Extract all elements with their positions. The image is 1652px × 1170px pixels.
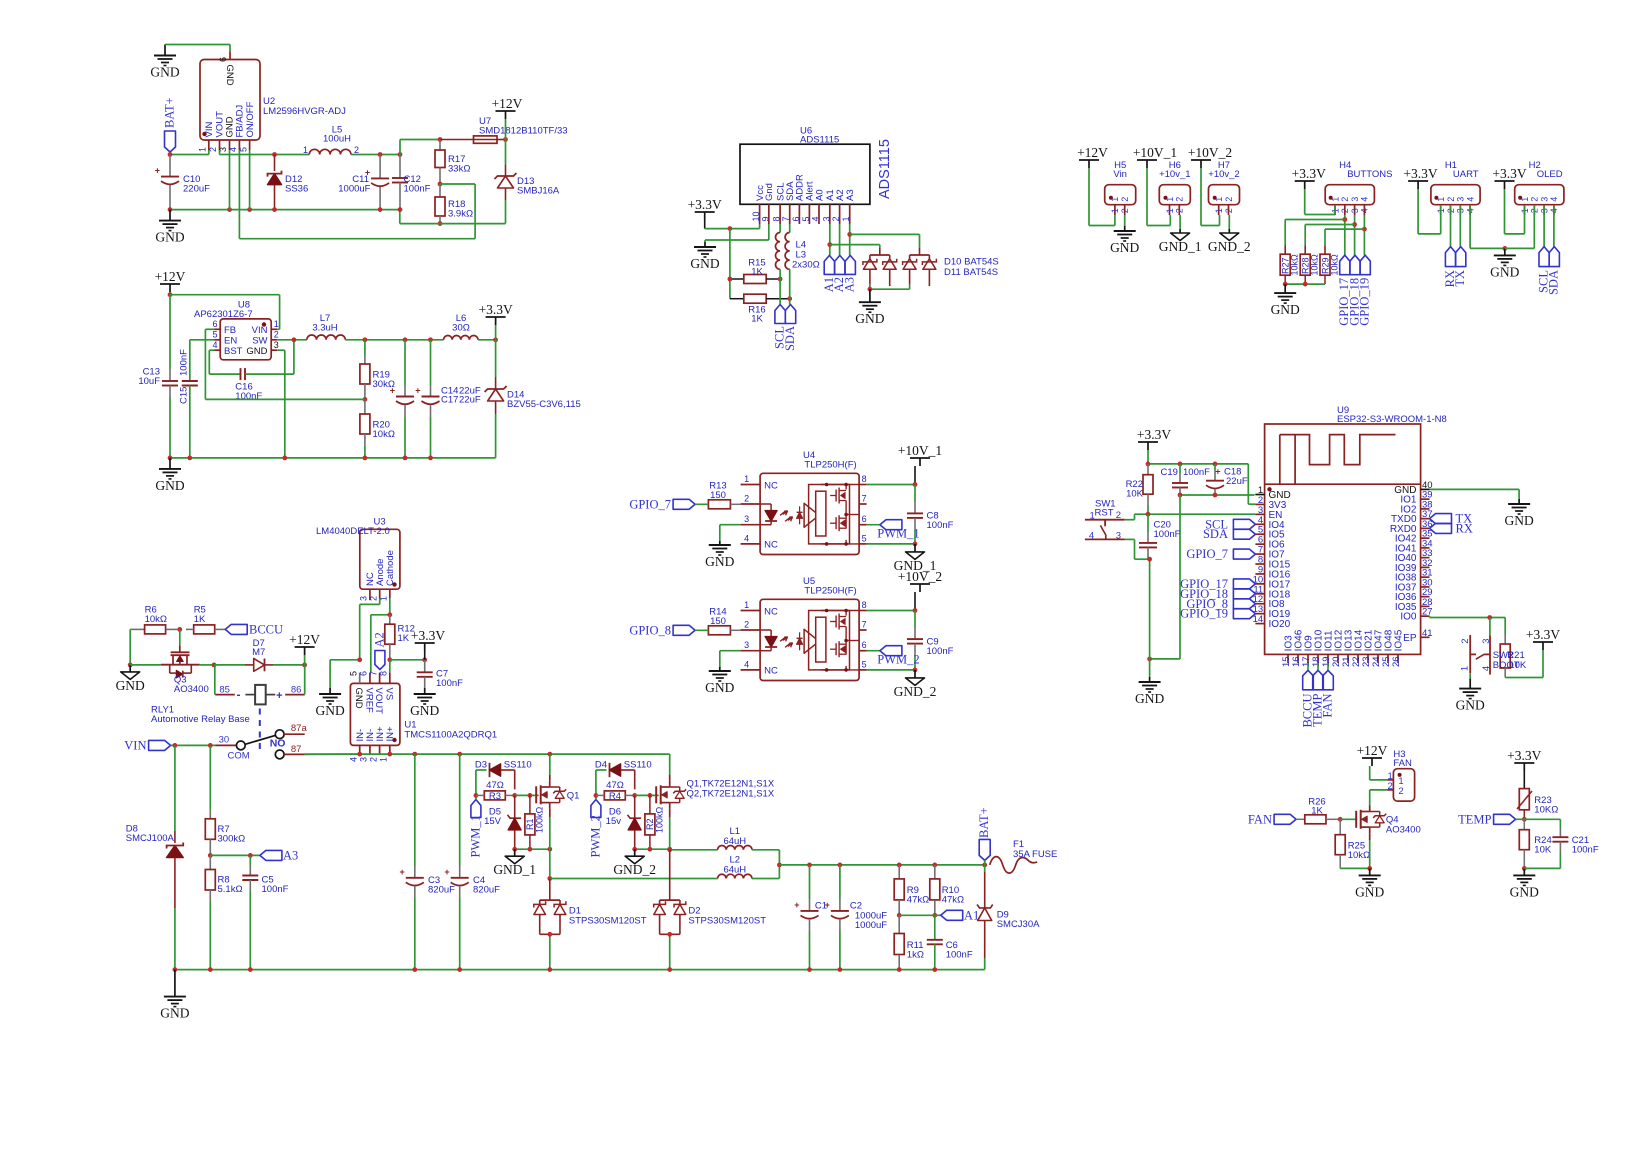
svg-text:D11 BAT54S: D11 BAT54S bbox=[944, 267, 998, 278]
svg-text:+3.3V: +3.3V bbox=[1507, 748, 1541, 763]
U6 pin 4 A0 bbox=[811, 189, 826, 224]
U9 pin 15 IO3 bbox=[1281, 635, 1295, 667]
svg-text:GND_2: GND_2 bbox=[894, 684, 937, 699]
ground GND (U6) bbox=[690, 242, 719, 271]
resistor R25 10k bbox=[1335, 819, 1370, 868]
svg-text:30: 30 bbox=[219, 735, 230, 746]
svg-text:6: 6 bbox=[212, 319, 217, 329]
wire H4 pin4 net bbox=[1363, 215, 1365, 255]
svg-text:100nF: 100nF bbox=[179, 349, 190, 376]
svg-text:1K: 1K bbox=[398, 633, 410, 644]
U6 pin 7 SDA bbox=[781, 181, 796, 224]
svg-text:C17: C17 bbox=[441, 395, 458, 406]
resistor R2 100k bbox=[645, 795, 665, 849]
svg-text:+: + bbox=[444, 867, 449, 877]
svg-text:820uF: 820uF bbox=[473, 885, 500, 896]
junction R18 bottom bbox=[438, 221, 443, 226]
IC U8 AP62301Z6-7 bbox=[194, 300, 271, 360]
capacitor C13 10uF bbox=[138, 295, 178, 458]
junction rail C5 bbox=[248, 967, 253, 972]
junction R15 left bbox=[728, 277, 733, 282]
flag PWM_1 (U4 out) bbox=[867, 520, 920, 541]
resistor R3 47 bbox=[476, 780, 515, 802]
wire SW2 pin3 drop bbox=[1489, 618, 1491, 636]
U9 pin 26 IO45 bbox=[1391, 629, 1405, 667]
svg-text:+3.3V: +3.3V bbox=[688, 197, 722, 212]
wire 12V to H3 pin1 bbox=[1370, 779, 1388, 781]
junction R2 top bbox=[648, 793, 653, 798]
svg-text:3: 3 bbox=[359, 596, 369, 601]
wire GND to U2 pin6 bbox=[165, 45, 230, 52]
svg-text:1K: 1K bbox=[751, 314, 763, 325]
flag SCL (U6) bbox=[773, 305, 787, 349]
capacitor C2 1000uF bbox=[825, 865, 888, 970]
svg-text:4: 4 bbox=[1481, 666, 1492, 671]
fuse F1 35A bbox=[990, 839, 1058, 873]
svg-text:R1: R1 bbox=[525, 818, 535, 830]
U1 pin 2 IN+ bbox=[368, 726, 386, 762]
flag PWM_2 (gate) bbox=[588, 800, 602, 858]
junction gnd pin5 bbox=[247, 207, 252, 212]
flag A1 bbox=[941, 909, 980, 923]
resistor R1 100k bbox=[525, 795, 545, 849]
inductor L5 100uH bbox=[303, 125, 380, 156]
svg-text:8: 8 bbox=[862, 474, 867, 484]
U9 pin 3 EN bbox=[1255, 505, 1282, 521]
svg-text:IN+: IN+ bbox=[385, 726, 396, 742]
IC U4 TLP250H(F) bbox=[741, 450, 867, 554]
U9 pin 41 EP bbox=[1403, 628, 1432, 644]
svg-text:RX: RX bbox=[1456, 521, 1473, 535]
svg-text:SS36: SS36 bbox=[285, 184, 308, 195]
svg-text:3: 3 bbox=[274, 340, 279, 350]
power +3.3V (H2) bbox=[1492, 166, 1526, 234]
flag GPIO_19 (U9) bbox=[1180, 607, 1255, 621]
ground GND_1 (H6) bbox=[1159, 229, 1202, 254]
U9 pin 2 3V3 bbox=[1255, 495, 1286, 511]
svg-text:RST: RST bbox=[1095, 508, 1114, 519]
svg-text:2: 2 bbox=[1398, 786, 1403, 797]
header H3 FAN bbox=[1387, 749, 1414, 801]
junction C17 top bbox=[428, 337, 433, 342]
svg-text:7: 7 bbox=[781, 216, 791, 221]
svg-text:3.9kΩ: 3.9kΩ bbox=[448, 209, 473, 220]
svg-text:1: 1 bbox=[1214, 197, 1224, 202]
header H2 OLED bbox=[1515, 160, 1564, 215]
svg-text:100nF: 100nF bbox=[927, 520, 954, 531]
svg-text:Automotive Relay Base: Automotive Relay Base bbox=[151, 714, 250, 725]
diode D8 SMCJ100A bbox=[126, 745, 183, 969]
junction R28 bottom bbox=[1303, 282, 1308, 287]
power +10V_2 bbox=[898, 569, 942, 611]
svg-text:STPS30SM120ST: STPS30SM120ST bbox=[569, 916, 647, 927]
wire cathode to vref bbox=[371, 598, 390, 673]
svg-text:4: 4 bbox=[1360, 208, 1370, 213]
wire H1 pin1 bbox=[1418, 205, 1441, 234]
svg-text:+3.3V: +3.3V bbox=[1292, 166, 1326, 181]
svg-text:2: 2 bbox=[1175, 197, 1185, 202]
svg-text:+: + bbox=[400, 867, 405, 877]
U9 pin 9 IO16 bbox=[1255, 564, 1290, 580]
wire A3 to D11 bbox=[850, 234, 920, 248]
U9 pin 36 RXD0 bbox=[1390, 519, 1433, 535]
svg-text:GND_2: GND_2 bbox=[613, 862, 656, 877]
svg-text:22uF: 22uF bbox=[1226, 476, 1248, 487]
svg-text:64uH: 64uH bbox=[723, 865, 746, 876]
U6 pin 8 SCL bbox=[772, 183, 787, 224]
svg-text:100uH: 100uH bbox=[323, 134, 351, 145]
U6 pin 1 A3 bbox=[841, 189, 856, 224]
svg-text:3: 3 bbox=[1539, 197, 1549, 202]
svg-text:D4: D4 bbox=[595, 760, 607, 771]
relay contact 87 bbox=[275, 744, 301, 759]
svg-text:BAT+: BAT+ bbox=[977, 807, 991, 838]
zener D5 15V bbox=[484, 795, 521, 849]
junction gnd pin3 bbox=[227, 207, 232, 212]
svg-text:A3: A3 bbox=[845, 189, 856, 201]
power +3.3V (R23) bbox=[1507, 748, 1541, 789]
svg-text:3: 3 bbox=[821, 216, 831, 221]
wire anode to U1 gnd bbox=[360, 598, 380, 660]
U6 pin 10 Vcc bbox=[751, 185, 766, 224]
svg-text:10kΩ: 10kΩ bbox=[1329, 254, 1339, 276]
svg-text:2: 2 bbox=[1116, 510, 1121, 521]
svg-text:Q2,TK72E12N1,S1X: Q2,TK72E12N1,S1X bbox=[687, 789, 775, 800]
svg-text:100nF: 100nF bbox=[235, 391, 262, 402]
wire IO0 to boot net bbox=[1430, 616, 1506, 617]
svg-text:BST: BST bbox=[224, 346, 243, 357]
svg-text:NC: NC bbox=[764, 480, 778, 491]
wire VIN to COM bbox=[171, 744, 237, 746]
U9 pin 40 GND bbox=[1394, 480, 1432, 496]
wire gnd to pin9 bbox=[705, 224, 769, 242]
svg-text:1: 1 bbox=[1165, 197, 1175, 202]
power +3.3V (U8 output) bbox=[478, 302, 512, 340]
flag A3 (U6) bbox=[843, 255, 857, 292]
flag SDA (U6) bbox=[783, 305, 797, 352]
resistor R13 150 bbox=[708, 481, 740, 509]
junction rail U8gnd bbox=[282, 456, 287, 461]
header H5 Vin bbox=[1105, 160, 1136, 215]
power +12V (H5) bbox=[1077, 145, 1108, 226]
svg-text:100nF: 100nF bbox=[1183, 467, 1210, 478]
svg-text:SDA: SDA bbox=[1547, 270, 1561, 295]
junction R10 A1 bbox=[932, 913, 937, 918]
flag SCL (H2) bbox=[1537, 205, 1551, 293]
svg-text:1: 1 bbox=[1436, 197, 1446, 202]
resistor R6 10k bbox=[130, 605, 167, 634]
wire gnd2 node bbox=[635, 848, 670, 850]
svg-text:R2: R2 bbox=[645, 818, 655, 830]
flag PWM_1 (gate) bbox=[468, 800, 482, 858]
U9 pin 29 IO36 bbox=[1395, 587, 1433, 603]
flag GPIO_8 (U9) bbox=[1186, 597, 1255, 611]
svg-text:C15: C15 bbox=[179, 387, 190, 404]
svg-text:2: 2 bbox=[274, 330, 279, 340]
svg-text:A0: A0 bbox=[814, 189, 825, 201]
svg-text:PWM_2: PWM_2 bbox=[588, 815, 602, 857]
wire gnd sym to pin5 bbox=[330, 660, 360, 688]
svg-text:2x30Ω: 2x30Ω bbox=[792, 260, 820, 271]
svg-text:IO0: IO0 bbox=[1400, 612, 1417, 623]
resistor R8 5.1k bbox=[205, 855, 242, 969]
svg-text:NC: NC bbox=[764, 666, 778, 677]
svg-text:1K: 1K bbox=[751, 267, 763, 278]
svg-text:33kΩ: 33kΩ bbox=[448, 164, 470, 175]
flag VIN bbox=[124, 739, 170, 753]
junction U7 left bbox=[438, 137, 443, 142]
junction D12 top bbox=[272, 152, 277, 157]
flag GPIO_7 (U4 in) bbox=[629, 498, 708, 512]
wire U5 pin5 gnd2 bbox=[867, 669, 915, 671]
wire pwm2 node bbox=[596, 770, 607, 800]
junction H1 H2 gnd bbox=[1502, 246, 1507, 251]
IC U9 ESP32-S3-WROOM-1-N8 (module outline and antenna) bbox=[1265, 405, 1447, 654]
transistor Q4 AO3400 bbox=[1340, 805, 1421, 835]
U9 pin 17 IO9 bbox=[1301, 635, 1315, 667]
wire U5 pin3 gnd bbox=[720, 651, 741, 667]
junction pwm2 bbox=[594, 793, 599, 798]
wire U8 gnd pin bbox=[277, 350, 285, 458]
wire pin2 to R27 bbox=[1285, 220, 1345, 255]
svg-text:GND_1: GND_1 bbox=[493, 862, 536, 877]
svg-text:GPIO_8: GPIO_8 bbox=[629, 624, 671, 638]
junction H4 pin3 bbox=[1352, 222, 1357, 227]
wire SW1 pin3 to C20 bbox=[1125, 539, 1150, 559]
svg-text:2: 2 bbox=[368, 596, 378, 601]
ground GND (U4 pin3) bbox=[705, 541, 734, 569]
resistor R5 1K bbox=[166, 605, 215, 634]
svg-text:SDA: SDA bbox=[783, 326, 797, 351]
svg-text:3: 3 bbox=[359, 757, 369, 762]
flag GPIO_7 (U9) bbox=[1186, 547, 1255, 561]
flag A3 bbox=[260, 849, 298, 863]
svg-text:1000uF: 1000uF bbox=[855, 920, 887, 931]
junction Q3 source gnd bbox=[128, 663, 133, 668]
wire bat54 gnd bbox=[870, 285, 910, 290]
svg-text:IO20: IO20 bbox=[1269, 619, 1291, 630]
junction rail C6 bbox=[932, 967, 937, 972]
resistor R26 1K bbox=[1296, 797, 1340, 824]
ground GND (U2 pin 6) bbox=[150, 45, 179, 80]
wire Q4 drain bbox=[1369, 804, 1371, 807]
U9 pin 23 IO21 bbox=[1361, 629, 1375, 667]
flag TEMP (input) bbox=[1458, 812, 1524, 826]
wire U5 pin8 to +10V_2 bbox=[867, 610, 915, 612]
junction R1 gnd1 bbox=[528, 847, 533, 852]
svg-text:GND: GND bbox=[1135, 691, 1164, 706]
header H7 +10v_2 bbox=[1208, 160, 1239, 215]
wire output riser to fuse rail bbox=[400, 140, 440, 155]
svg-text:GPIO_19: GPIO_19 bbox=[1180, 607, 1228, 621]
U6 pin 3 A1 bbox=[821, 189, 836, 224]
resistor R14 150 bbox=[708, 607, 740, 635]
flag SDA (H2) bbox=[1547, 205, 1561, 295]
U9 pin 30 IO37 bbox=[1395, 577, 1433, 593]
svg-text:150: 150 bbox=[710, 490, 726, 501]
svg-text:47kΩ: 47kΩ bbox=[942, 895, 964, 906]
resistor R29 10k bbox=[1320, 254, 1339, 284]
svg-text:+12V: +12V bbox=[1357, 743, 1388, 758]
svg-text:TX: TX bbox=[1453, 270, 1467, 287]
resistor R24 10K bbox=[1519, 819, 1552, 868]
capacitor C8 100nF bbox=[907, 485, 954, 544]
svg-text:C19: C19 bbox=[1161, 467, 1178, 478]
U9 pin 35 IO42 bbox=[1395, 529, 1433, 545]
ground GND (U5 pin3) bbox=[705, 667, 734, 695]
junction rail C14 bbox=[403, 456, 408, 461]
U1 pin 3 IN- bbox=[359, 729, 377, 762]
svg-text:100nF: 100nF bbox=[404, 184, 431, 195]
svg-text:100nF: 100nF bbox=[1154, 529, 1181, 540]
ground GND (U8 rail) bbox=[155, 458, 184, 493]
power +12V (U8 input) bbox=[155, 269, 186, 295]
svg-text:SDA: SDA bbox=[1203, 527, 1228, 541]
U9 pin 31 IO38 bbox=[1395, 568, 1433, 584]
svg-text:26: 26 bbox=[1391, 656, 1402, 667]
U8 pin 1 VIN bbox=[252, 319, 279, 336]
flag PWM_2 (U5 out) bbox=[867, 646, 920, 667]
wire H7 pin1 bbox=[1201, 215, 1220, 226]
transistor Q1 TK72E12N1 bbox=[536, 781, 579, 809]
svg-text:GND: GND bbox=[410, 703, 439, 718]
U9 pin 13 IO19 bbox=[1253, 604, 1291, 620]
svg-text:820uF: 820uF bbox=[428, 885, 455, 896]
flag TX (H1) bbox=[1453, 205, 1467, 287]
svg-text:86: 86 bbox=[291, 685, 302, 696]
svg-text:GND: GND bbox=[155, 230, 184, 245]
header H1 UART bbox=[1431, 160, 1480, 215]
U9 pin 27 IO0 bbox=[1400, 607, 1432, 623]
svg-text:7: 7 bbox=[862, 620, 867, 630]
resistor R16 1K bbox=[730, 294, 790, 324]
svg-text:2: 2 bbox=[1224, 208, 1234, 213]
svg-text:300kΩ: 300kΩ bbox=[218, 834, 246, 845]
diode D12 SS36 bbox=[268, 155, 309, 210]
wire 3.3 rail esp bbox=[1148, 464, 1255, 504]
resistor R22 10K bbox=[1126, 464, 1153, 514]
ground GND (D10 D11) bbox=[855, 289, 884, 326]
svg-text:GND: GND bbox=[705, 680, 734, 695]
U9 pin 20 IO12 bbox=[1331, 629, 1345, 667]
svg-text:STPS30SM120ST: STPS30SM120ST bbox=[688, 916, 766, 927]
svg-text:64uH: 64uH bbox=[723, 836, 746, 847]
resistor R18 3.9k bbox=[435, 184, 473, 224]
junction VIN R7 bbox=[208, 743, 213, 748]
wire D13 gnd return bbox=[400, 210, 506, 224]
svg-text:2: 2 bbox=[744, 494, 749, 504]
wire gate2 to Q2 bbox=[635, 794, 659, 796]
wire H5 pin2 gnd bbox=[1124, 215, 1126, 226]
svg-text:3: 3 bbox=[1456, 197, 1466, 202]
U9 pin 22 IO14 bbox=[1351, 629, 1365, 667]
diode D9 SMCJ30A bbox=[977, 865, 1040, 970]
svg-text:AO3400: AO3400 bbox=[1386, 825, 1421, 836]
svg-text:2: 2 bbox=[1120, 208, 1130, 213]
junction R9 mid bbox=[897, 913, 902, 918]
svg-text:NC: NC bbox=[764, 606, 778, 617]
svg-text:GND: GND bbox=[1490, 264, 1519, 279]
header H4 BUTTONS bbox=[1325, 160, 1392, 215]
svg-text:2: 2 bbox=[1460, 638, 1471, 643]
svg-text:10kΩ: 10kΩ bbox=[373, 429, 395, 440]
wire H4 pin1 bbox=[1305, 205, 1335, 215]
svg-text:8: 8 bbox=[772, 216, 782, 221]
svg-text:1: 1 bbox=[1110, 208, 1120, 213]
svg-text:EN: EN bbox=[224, 335, 237, 346]
capacitor C20 100nF bbox=[1139, 514, 1181, 559]
U1 pin 7 VOUT bbox=[368, 671, 384, 714]
svg-text:1K: 1K bbox=[1311, 806, 1323, 817]
ground GND (U9 pin40) bbox=[1504, 499, 1533, 528]
wire pin4 to R29 bbox=[1325, 229, 1364, 254]
svg-text:SS110: SS110 bbox=[624, 760, 652, 771]
flag RX (U9) bbox=[1430, 521, 1473, 535]
svg-text:R4: R4 bbox=[609, 791, 621, 802]
wire GND rail U2 bbox=[170, 209, 400, 211]
svg-text:1K: 1K bbox=[194, 614, 206, 625]
thermistor R23 10K bbox=[1517, 789, 1558, 820]
svg-text:GND: GND bbox=[150, 65, 179, 80]
svg-text:2: 2 bbox=[208, 147, 218, 152]
U2 pin 2 VOUT bbox=[208, 111, 226, 152]
svg-text:+10v_1: +10v_1 bbox=[1159, 169, 1190, 180]
svg-text:6: 6 bbox=[359, 671, 369, 676]
wire C19 gnd drop bbox=[1150, 495, 1180, 659]
junction H4 pin2 bbox=[1342, 217, 1347, 222]
junction rail C13 bbox=[168, 456, 173, 461]
svg-text:10kΩ: 10kΩ bbox=[1348, 850, 1370, 861]
wire H6 pin1 bbox=[1147, 215, 1170, 226]
U1 pin 8 VS bbox=[379, 671, 395, 700]
svg-text:SMCJ30A: SMCJ30A bbox=[997, 919, 1040, 930]
wire R15 R16 column bbox=[729, 229, 731, 299]
junction C9 top bbox=[913, 608, 918, 613]
junction A3 tap bbox=[847, 232, 852, 237]
U8 pin 6 FB bbox=[212, 319, 236, 336]
capacitor C7 100nF bbox=[417, 660, 463, 689]
svg-text:+: + bbox=[276, 690, 282, 702]
junction C12 top bbox=[398, 152, 403, 157]
capacitor C19 100nF bbox=[1161, 464, 1211, 495]
power +3.3V (ESP32) bbox=[1137, 427, 1171, 464]
svg-text:30Ω: 30Ω bbox=[452, 323, 470, 334]
zener D14 BZV55-C3V6 bbox=[485, 340, 581, 458]
junction rail C17 bbox=[428, 456, 433, 461]
svg-text:100nF: 100nF bbox=[262, 884, 289, 895]
relay actuator dashed link bbox=[259, 709, 261, 754]
ground GND_2 (gate drive 2) bbox=[613, 849, 656, 877]
svg-text:GND: GND bbox=[246, 346, 267, 357]
capacitor C12 100nF bbox=[392, 155, 431, 210]
wire divider mid bbox=[899, 914, 941, 916]
wire Q1 drain bbox=[549, 754, 551, 781]
svg-text:SS110: SS110 bbox=[504, 760, 532, 771]
junction C9 bottom bbox=[913, 668, 918, 673]
ground GND (R24) bbox=[1510, 868, 1539, 899]
junction R27 bottom bbox=[1283, 282, 1288, 287]
svg-text:100nF: 100nF bbox=[927, 646, 954, 657]
ground GND (H5) bbox=[1110, 226, 1139, 255]
relay contact 87a bbox=[275, 723, 307, 738]
wire FB net bbox=[239, 150, 475, 239]
junction R19 top bbox=[363, 337, 368, 342]
junction cathode R12 bbox=[387, 612, 392, 617]
svg-text:10K: 10K bbox=[1534, 845, 1552, 856]
svg-text:Cathode: Cathode bbox=[385, 550, 396, 586]
capacitor C15 100nF bbox=[179, 349, 198, 458]
svg-text:2: 2 bbox=[368, 757, 378, 762]
